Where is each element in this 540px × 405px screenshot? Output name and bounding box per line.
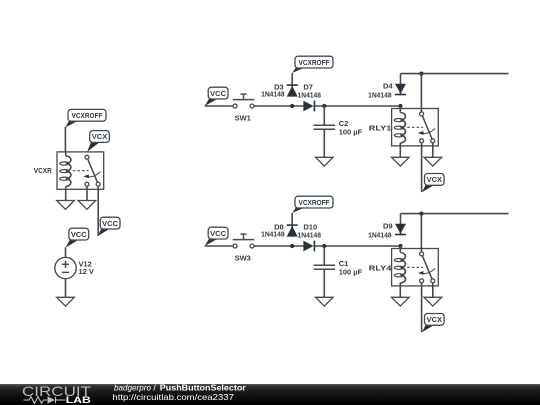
relay RLY4 [392,249,439,286]
svg-text:1N4148: 1N4148 [368,230,392,239]
wire SW1 to diodes [254,105,304,107]
wire RLY1 coil junction [400,106,402,109]
svg-text:VCC: VCC [102,219,118,228]
ground below RLY1 coil [392,157,410,166]
svg-text:VCC: VCC [210,229,226,238]
svg-text:1N4148: 1N4148 [261,89,285,98]
wire VCXR NO contact down [97,186,99,236]
junction RLY4 coil top [398,244,402,248]
push button SW1 [233,94,255,108]
wire RLY1 NO contact to ground [432,143,434,158]
wire VCXR NC contact to ground [86,186,88,200]
diode D10 [303,241,314,252]
relay VCXR [57,152,104,189]
junction RLY1 coil top [398,104,402,108]
svg-text:VCX: VCX [427,175,442,184]
wire C1 top lead [323,246,325,265]
ground below V12 [57,297,75,306]
footer bar [0,384,540,405]
wire RLY1 NC contact to VCX [421,143,423,192]
junction C2 top [322,104,326,108]
junction rail to RLY1 common [419,72,423,76]
wire RLY4 NC contact to VCX [421,283,423,332]
svg-text:VCC: VCC [71,230,87,239]
svg-text:VCXROFF: VCXROFF [72,111,103,120]
capacitor C2 [314,125,336,129]
net flag VCX (RLY4) [422,314,444,333]
voltage source V12 [55,257,76,278]
svg-text:1N4148: 1N4148 [368,90,392,99]
wire D8 to VCXROFF flag [291,213,293,224]
svg-text:100 µF: 100 µF [339,127,363,136]
diode D4 [395,74,406,96]
wire rail to RLY4 common [420,214,422,252]
wire RLY4 coil junction [400,246,402,249]
net flag VCXROFF (D8) [292,196,333,213]
ground below VCXR coil [57,201,75,210]
svg-text:12 V: 12 V [79,267,94,276]
wire VCC flag to SW3 [205,245,233,247]
svg-text:RLY4: RLY4 [369,263,393,272]
svg-text:100 µF: 100 µF [339,267,363,276]
diode D9 [395,214,406,236]
junction C1 top [322,244,326,248]
net flag VCX (RLY1) [422,174,444,193]
ground below RLY1 contact [424,157,442,166]
wire C2 bottom lead [323,129,325,157]
svg-text:PushButtonSelector: PushButtonSelector [160,383,247,393]
svg-text:VCX: VCX [427,315,442,324]
svg-text:SW3: SW3 [235,253,251,262]
svg-text:D4: D4 [383,81,393,90]
wire RLY4 coil to ground [399,286,401,298]
wire top rail [401,213,509,215]
diode D8 [287,224,298,236]
net flag VCX (VCXR common) [87,131,109,152]
diode D7 [303,101,314,112]
ground below RLY4 coil [392,297,410,306]
junction D8 anode [290,244,294,248]
wire D7 to RLY1 [315,105,401,107]
relay RLY1 [392,109,439,146]
wire SW3 to diodes [254,245,304,247]
net flag VCC (SW1) [205,87,228,106]
svg-text:SW1: SW1 [235,113,251,122]
svg-text:badgerpro: badgerpro [114,383,151,393]
svg-text:RLY1: RLY1 [369,123,392,132]
wire D10 to RLY4 [315,245,401,247]
svg-text:http://circuitlab.com/cea2337: http://circuitlab.com/cea2337 [112,392,234,402]
ground below VCXR contact [78,201,96,210]
svg-text:1N4148: 1N4148 [298,90,322,99]
wire RLY4 NO contact to ground [432,283,434,298]
wire D3 to VCXROFF flag [291,73,293,84]
svg-text:VCXROFF: VCXROFF [299,58,330,67]
svg-text:1N4148: 1N4148 [298,230,322,239]
logo resistor-diode glyph [24,397,66,404]
wire C1 bottom lead [323,269,325,297]
svg-text:VCXROFF: VCXROFF [299,198,330,207]
svg-text:D9: D9 [383,221,393,230]
svg-text:VCXR: VCXR [34,166,52,175]
svg-text:LAB: LAB [66,395,91,405]
svg-text:VCC: VCC [210,89,226,98]
diode D3 [287,84,298,96]
wire VCXROFF flag to VCXR coil [64,127,66,152]
wire VCC flag to SW1 [205,105,233,107]
ground below C2 [316,157,334,166]
net flag VCC (SW3) [205,227,228,246]
net flag VCXROFF (D3) [292,56,333,73]
junction rail to RLY4 common [419,212,423,216]
net flag VCXROFF (VCXR coil) [65,109,106,127]
wire top rail [401,73,509,75]
capacitor C1 [314,265,336,269]
ground below C1 [316,297,334,306]
wire C2 top lead [323,106,325,125]
net flag VCC (V12) [66,228,89,247]
svg-text:VCX: VCX [92,132,107,141]
wire VCXR coil to ground [65,189,67,200]
junction D3 anode [290,104,294,108]
wire rail to RLY1 common [420,74,422,112]
wire V12 to ground [65,279,67,298]
wire VCC flag to V12 [65,247,67,257]
wire RLY1 coil to ground [399,146,401,158]
ground below RLY4 contact [424,297,442,306]
net flag VCC (VCXR NO) [98,217,120,236]
svg-text:1N4148: 1N4148 [261,229,285,238]
push button SW3 [233,234,255,248]
